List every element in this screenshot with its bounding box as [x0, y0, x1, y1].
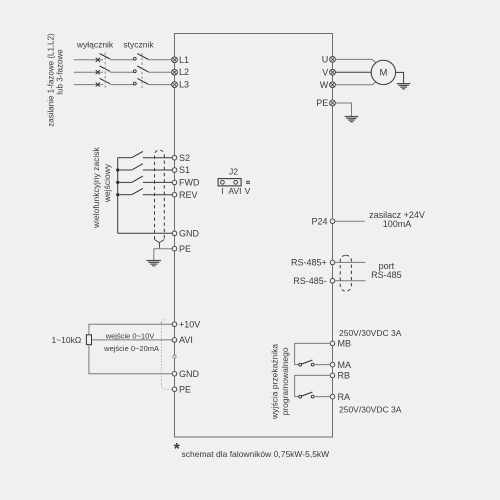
svg-text:wejściowy: wejściowy	[102, 163, 112, 203]
wire L2 input	[74, 71, 103, 73]
ground symbol (control PE)	[147, 249, 162, 266]
svg-text:MA: MA	[338, 360, 352, 370]
wire PE to ground (power)	[335, 103, 351, 116]
terminal PE (power)	[316, 98, 335, 108]
ground symbol (motor)	[397, 84, 411, 89]
jumper J2	[218, 167, 251, 196]
terminal S2	[172, 153, 190, 163]
svg-text:RB: RB	[338, 371, 351, 381]
analog cable shield (dotted) to PE	[161, 320, 172, 390]
svg-text:V: V	[322, 67, 328, 77]
junction dot REV	[116, 193, 119, 196]
svg-text:wejście 0~10V: wejście 0~10V	[105, 331, 155, 340]
svg-text:lub 3-fazowe: lub 3-fazowe	[56, 49, 65, 95]
svg-text:REV: REV	[179, 190, 198, 200]
terminal W	[320, 80, 336, 90]
input bus wire	[117, 158, 119, 234]
svg-text:MB: MB	[338, 339, 352, 349]
svg-text:AVI: AVI	[228, 186, 241, 196]
wire contact to RA	[314, 396, 330, 398]
wire L1 input	[74, 59, 103, 61]
svg-text:M: M	[379, 68, 387, 79]
terminal RA	[330, 392, 350, 402]
junction dot S1	[116, 168, 119, 171]
wire L2 breaker to contactor	[110, 71, 133, 73]
switch S2	[118, 151, 173, 157]
terminal L3	[172, 80, 189, 90]
wire AVI (wiper)	[92, 339, 173, 341]
breaker fixed-contact x mark pole 1	[96, 58, 100, 62]
svg-text:RS-485-: RS-485-	[293, 276, 327, 286]
terminal AVI	[172, 335, 193, 345]
wire contactor to terminal L3	[148, 84, 171, 86]
terminal RB	[330, 371, 350, 381]
wire U to motor	[335, 59, 376, 63]
wire P24	[335, 220, 365, 222]
terminal +10V	[172, 319, 200, 329]
switch FWD	[118, 176, 173, 182]
svg-text:S1: S1	[179, 165, 190, 175]
svg-text:250V/30VDC 3A: 250V/30VDC 3A	[339, 405, 402, 415]
wire V to motor	[335, 71, 371, 73]
terminal L2	[172, 67, 189, 77]
breaker mechanical link (dashed)	[104, 53, 106, 90]
switch REV	[118, 188, 173, 194]
wire motor to ground	[396, 72, 404, 83]
wire contactor to terminal L2	[148, 71, 171, 73]
wire L3 input	[74, 84, 103, 86]
vertical label: wielofunkcyjny zacisk wejściowy	[91, 146, 112, 229]
svg-text:RS-485: RS-485	[371, 270, 402, 280]
junction dot FWD	[116, 181, 119, 184]
footnote asterisk	[174, 441, 181, 458]
breaker blade pole 2	[100, 66, 111, 72]
wire L1 breaker to contactor	[110, 59, 133, 61]
wire pot to GND	[89, 345, 172, 374]
switch S1	[118, 164, 173, 170]
terminal PE (analog)	[172, 384, 191, 394]
shielded cable (dashed capsule) for control wires	[155, 150, 165, 249]
svg-text:U: U	[322, 54, 329, 64]
terminal L1	[172, 55, 189, 65]
terminal REV	[172, 190, 197, 200]
terminal MB	[330, 339, 351, 349]
terminal PE (control)	[172, 244, 191, 254]
vertical label: zasilanie 1-fazowe (L1,L2) lub 3-fazowe	[46, 33, 64, 127]
contactor contact circle pole 2	[133, 70, 136, 73]
svg-text:AVI: AVI	[179, 335, 193, 345]
breaker blade pole 1	[100, 54, 111, 60]
label wyłącznik	[76, 40, 114, 50]
svg-text:+10V: +10V	[179, 319, 200, 329]
footnote: schemat dla falowników 0,75kW-5,5kW	[182, 449, 330, 459]
ground symbol (power PE)	[345, 117, 359, 122]
svg-text:PE: PE	[316, 98, 328, 108]
svg-text:1~10kΩ: 1~10kΩ	[51, 335, 81, 345]
breaker blade pole 3	[100, 78, 111, 84]
terminal FWD	[172, 178, 200, 188]
terminal V	[322, 67, 335, 77]
label wejście 0~20mA	[103, 344, 159, 353]
svg-text:S2: S2	[179, 153, 190, 163]
label zasilacz +24V 100mA	[369, 210, 425, 229]
label stycznik	[123, 40, 154, 50]
svg-text:250V/30VDC 3A: 250V/30VDC 3A	[339, 328, 402, 338]
svg-text:L2: L2	[179, 67, 189, 77]
svg-text:L3: L3	[179, 80, 189, 90]
svg-text:I: I	[221, 186, 223, 196]
potentiometer 1~10kΩ	[51, 335, 91, 345]
contactor contact circle pole 1	[133, 57, 136, 60]
svg-text:zasilanie 1-fazowe (L1,L2): zasilanie 1-fazowe (L1,L2)	[46, 33, 55, 127]
wire +10V	[89, 324, 172, 335]
svg-text:stycznik: stycznik	[123, 40, 154, 50]
wire contact to MA	[314, 364, 330, 366]
wire RB loop	[295, 375, 331, 396]
svg-text:PE: PE	[179, 244, 191, 254]
svg-text:GND: GND	[179, 229, 200, 239]
terminal GND (control)	[172, 229, 199, 239]
terminal RS-485+	[291, 258, 335, 268]
contactor mechanical link (dashed)	[141, 53, 143, 91]
relay contact RB-RA	[299, 392, 314, 398]
terminal RS-485-	[293, 276, 335, 286]
wire L3 breaker to contactor	[110, 84, 133, 86]
svg-text:schemat dla falowników 0,75kW-: schemat dla falowników 0,75kW-5,5kW	[182, 449, 330, 459]
RS-485 cable shield (dashed capsule)	[340, 255, 351, 291]
terminal U	[322, 54, 336, 64]
contactor blade pole 3	[137, 78, 148, 84]
svg-text:100mA: 100mA	[383, 219, 412, 229]
svg-text:wyjścia przekaźnika: wyjścia przekaźnika	[270, 344, 280, 420]
svg-text:wielofunkcyjny zacisk: wielofunkcyjny zacisk	[91, 146, 101, 229]
wire PE (control)	[154, 248, 173, 250]
contactor contact circle pole 3	[133, 82, 136, 85]
breaker fixed-contact x mark pole 2	[96, 70, 100, 74]
svg-text:P24: P24	[311, 216, 327, 226]
wire GND (control)	[118, 232, 173, 234]
terminal ACI (unused)	[173, 355, 176, 358]
svg-text:FWD: FWD	[179, 178, 200, 188]
terminal MA	[330, 360, 351, 370]
svg-text:L1: L1	[179, 55, 189, 65]
terminal P24	[311, 216, 334, 226]
contactor blade pole 1	[137, 54, 148, 60]
svg-text:wejście 0~20mA: wejście 0~20mA	[103, 344, 159, 353]
terminal GND (analog)	[172, 369, 199, 379]
label port RS-485	[371, 261, 402, 280]
svg-text:V: V	[245, 186, 251, 196]
contactor blade pole 2	[137, 66, 148, 72]
svg-text:*: *	[174, 441, 181, 458]
svg-text:W: W	[320, 80, 329, 90]
wire MB loop	[295, 343, 331, 364]
vertical label: wyjścia przekaźnika programowalnego	[270, 344, 291, 420]
wire contactor to terminal L1	[148, 59, 171, 61]
wire RS-485+	[335, 261, 366, 263]
wire RS-485-	[335, 280, 366, 282]
svg-text:GND: GND	[179, 369, 200, 379]
relay contact MB-MA	[299, 360, 314, 366]
breaker fixed-contact x mark pole 3	[96, 83, 100, 87]
wire W to motor	[335, 82, 376, 85]
terminal S1	[172, 165, 190, 175]
svg-text:programowalnego: programowalnego	[280, 347, 290, 415]
svg-text:wyłącznik: wyłącznik	[76, 40, 114, 50]
svg-text:RA: RA	[338, 392, 351, 402]
label 250V/30VDC 3A (top)	[339, 328, 402, 338]
svg-text:PE: PE	[179, 384, 191, 394]
label 250V/30VDC 3A (bottom)	[339, 405, 402, 415]
svg-text:J2: J2	[229, 167, 238, 177]
svg-text:RS-485+: RS-485+	[291, 258, 327, 268]
inverter box U1	[175, 34, 333, 438]
label wejście 0~10V	[105, 331, 155, 340]
motor M	[371, 60, 395, 84]
